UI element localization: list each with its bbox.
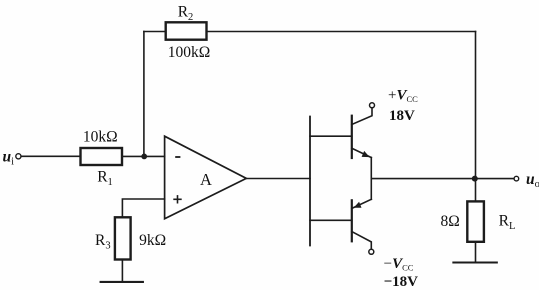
wire R3 to ground bbox=[121, 260, 123, 282]
wire top to R2 bbox=[144, 31, 166, 33]
op-amp U1 bbox=[165, 136, 247, 219]
input terminal circle bbox=[16, 154, 21, 159]
+Vcc terminal circle bbox=[370, 103, 375, 108]
svg-text:100kΩ: 100kΩ bbox=[168, 44, 211, 61]
wire feedback right vertical bbox=[475, 32, 477, 202]
svg-text:10kΩ: 10kΩ bbox=[83, 129, 118, 146]
wire noninverting input bbox=[122, 199, 164, 217]
wire feedback left vertical bbox=[143, 32, 145, 157]
svg-text:A: A bbox=[200, 170, 212, 189]
transistor Q1 (NPN) bbox=[352, 108, 372, 158]
node A (inverting input junction) bbox=[141, 154, 147, 160]
wire emitters vertical bbox=[370, 158, 372, 200]
wire base of Q2 bbox=[310, 219, 352, 221]
resistor RL bbox=[467, 201, 484, 241]
svg-text:−18V: −18V bbox=[384, 274, 419, 290]
wire base bus vertical bbox=[309, 117, 311, 246]
ground (right) bbox=[453, 261, 496, 263]
wire input to R1 bbox=[21, 155, 80, 157]
wire R2 to right vertical bbox=[207, 31, 476, 33]
wire R1 to inverting input bbox=[122, 155, 165, 157]
resistor R3 bbox=[115, 217, 131, 259]
svg-text:9kΩ: 9kΩ bbox=[139, 232, 166, 249]
resistor R2 bbox=[166, 22, 207, 39]
wire RL to ground bbox=[475, 242, 477, 263]
output terminal circle bbox=[514, 176, 519, 181]
wire base of Q1 bbox=[310, 135, 352, 137]
resistor R1 bbox=[81, 148, 123, 165]
node output junction bbox=[472, 176, 478, 182]
wire op-amp output bbox=[246, 178, 310, 180]
svg-text:18V: 18V bbox=[389, 108, 415, 124]
-Vcc terminal circle bbox=[369, 249, 374, 254]
wire output bbox=[371, 178, 514, 180]
svg-text:8Ω: 8Ω bbox=[441, 213, 460, 230]
ground (left) bbox=[101, 281, 143, 283]
transistor Q2 (PNP) bbox=[352, 199, 372, 249]
label minus input bbox=[175, 156, 180, 158]
label plus input bbox=[173, 195, 181, 203]
